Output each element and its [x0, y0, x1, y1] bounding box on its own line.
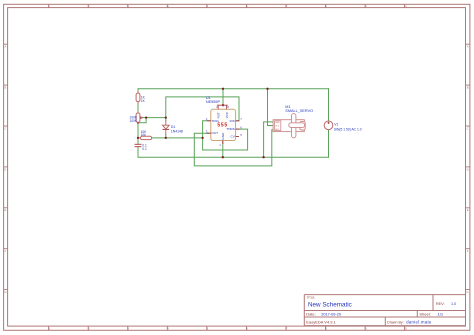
svg-text:EasyEDA V4.9.1: EasyEDA V4.9.1 [306, 319, 336, 324]
svg-text:DIS: DIS [230, 119, 235, 123]
wire top rail [138, 88, 329, 90]
node rst/vcc tie [222, 104, 224, 106]
svg-text:2017-09-20: 2017-09-20 [321, 312, 342, 317]
wire V1 bottom lead [328, 130, 330, 158]
svg-text:1/1: 1/1 [438, 312, 444, 317]
node trig/thr [201, 137, 203, 139]
potentiometer R2 100K [130, 111, 143, 124]
svg-text:B: B [5, 86, 7, 90]
wire TRIG vertical [203, 121, 211, 138]
wire servo GND drop [264, 122, 275, 157]
node pot bottom [137, 122, 139, 124]
svg-text:100K: 100K [130, 119, 138, 123]
CIRCUIT [138, 89, 329, 166]
wire THR loop [203, 129, 248, 150]
svg-text:RST: RST [217, 112, 221, 118]
svg-text:SMALL_SERVO: SMALL_SERVO [285, 109, 313, 113]
node gnd rail servo [262, 156, 264, 158]
svg-text:A: A [5, 45, 7, 49]
svg-text:VCC: VCC [275, 126, 280, 128]
U1 pin 2 TRIG stub [207, 120, 211, 122]
svg-text:OUT: OUT [212, 131, 219, 135]
svg-text:NE555P: NE555P [206, 100, 221, 104]
svg-text:THRS: THRS [226, 127, 234, 131]
wire cap bottom to gnd rail corner [138, 147, 329, 157]
wire R1 bottom to pot top [137, 102, 139, 113]
svg-text:SIG: SIG [275, 129, 279, 131]
svg-text:E: E [5, 208, 7, 212]
svg-text:TITLE:: TITLE: [307, 296, 316, 300]
wire wiper node up and over to DIS [166, 97, 239, 121]
wire pot wiper row [140, 117, 166, 119]
junction dots [137, 88, 269, 159]
wire 555 vcc drop [222, 89, 224, 105]
capacitor C1 0.1 [135, 144, 147, 151]
wire row A left [138, 137, 140, 139]
svg-text:Drawn By:: Drawn By: [387, 320, 404, 324]
svg-text:D: D [467, 167, 469, 171]
svg-text:GND: GND [275, 122, 280, 124]
U1 pin 7 DIS stub [236, 120, 240, 122]
wire D1 anode lead [165, 118, 167, 121]
voltage source V1 [324, 121, 362, 131]
svg-text:1.0: 1.0 [451, 302, 456, 306]
U1 pin 5 CV stub [236, 136, 239, 138]
node wiper b [145, 116, 147, 118]
U1 pin 1 GND stub [222, 141, 224, 145]
node wiper a [139, 116, 141, 118]
svg-text:A: A [467, 45, 469, 49]
svg-text:C: C [4, 126, 6, 130]
svg-text:10: 10 [404, 327, 407, 331]
svg-text:G: G [467, 290, 469, 294]
node diode/row A [165, 137, 167, 139]
wire row A right of R3 [152, 137, 203, 139]
op-amp/timer U1 555 body [206, 96, 242, 147]
node wiper/diode [165, 116, 167, 118]
svg-text:Sheet:: Sheet: [419, 312, 431, 317]
U1 rst/vcc tie bar [217, 104, 228, 106]
wire pot bottom down to row A [137, 122, 139, 144]
svg-text:V1: V1 [334, 123, 338, 127]
wire wiper tie to pot bottom [138, 118, 146, 123]
wire V1 top lead [328, 89, 330, 121]
svg-text:C: C [467, 126, 469, 130]
node vcc/555 [222, 88, 224, 90]
resistor R1 [136, 92, 146, 104]
svg-text:D: D [4, 167, 6, 171]
wire servo vcc drop [268, 89, 274, 126]
U1 pin 4 RST stub [217, 105, 219, 109]
resistor R3 10K [140, 130, 151, 140]
title block [304, 295, 465, 326]
svg-text:TRIG: TRIG [212, 119, 220, 123]
svg-text:E: E [467, 208, 469, 212]
svg-text:10: 10 [404, 4, 407, 8]
node vcc/servo [266, 88, 268, 90]
svg-text:1N4148: 1N4148 [171, 130, 183, 134]
svg-text:0.1: 0.1 [142, 147, 147, 151]
wire OUT to servo SIG [194, 130, 274, 166]
svg-text:B: B [467, 86, 469, 90]
wire D1 cathode lead [165, 135, 167, 138]
diode D1 1N4148 [163, 120, 183, 135]
svg-text:VCC: VCC [225, 111, 229, 118]
svg-text:New Schematic: New Schematic [308, 301, 352, 308]
U1 pin 8 VCC stub [226, 105, 228, 109]
svg-text:REV:: REV: [436, 302, 445, 306]
node row A left [137, 137, 139, 139]
node gnd rail 555 [222, 156, 224, 158]
wire left rail top to R1 [137, 89, 139, 93]
U1 pin 3 OUT stub [207, 132, 211, 134]
servo M1 [273, 105, 313, 138]
svg-text:Date:: Date: [306, 312, 316, 317]
svg-text:G: G [4, 290, 6, 294]
U1 pin 6 THRS stub [236, 128, 240, 130]
svg-text:SIN(5 1 50) AC 1.0: SIN(5 1 50) AC 1.0 [334, 127, 362, 131]
svg-text:daniel.mate: daniel.mate [406, 319, 432, 324]
wire 555 GND pin drop [222, 141, 224, 158]
svg-text:GND: GND [221, 132, 225, 140]
svg-text:10k: 10k [141, 133, 147, 137]
